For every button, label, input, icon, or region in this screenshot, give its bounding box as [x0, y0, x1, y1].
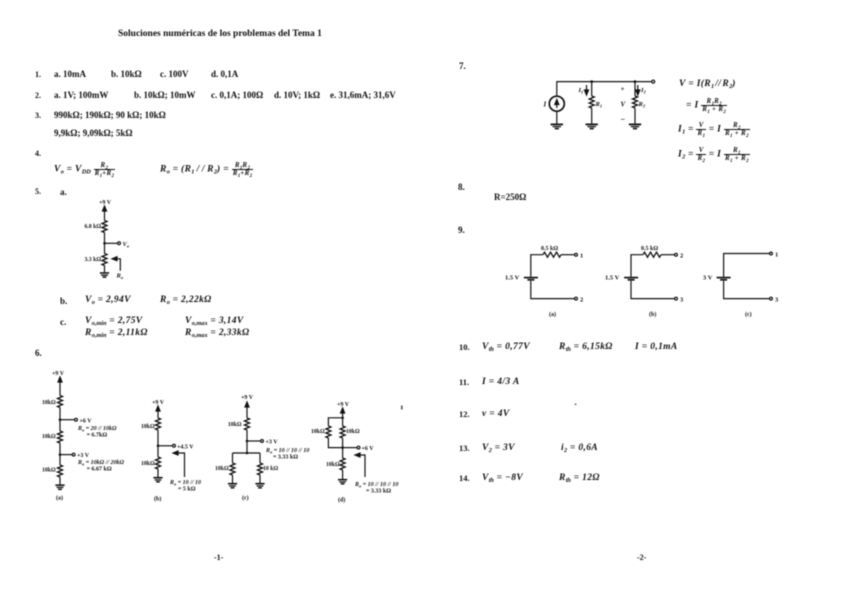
svg-text:Vo: Vo [123, 241, 130, 249]
svg-text:+9 V: +9 V [337, 402, 350, 408]
svg-text:10kΩ: 10kΩ [42, 468, 56, 474]
svg-text:1: 1 [775, 251, 778, 258]
svg-text:+3 V: +3 V [266, 440, 279, 446]
svg-text:3: 3 [775, 296, 779, 303]
svg-text:2: 2 [680, 253, 683, 260]
svg-text:1.5 V: 1.5 V [505, 275, 520, 282]
svg-text:3 V: 3 V [703, 275, 713, 282]
svg-text:(a): (a) [56, 495, 63, 502]
svg-text:10kΩ: 10kΩ [326, 462, 340, 468]
svg-text:R1: R1 [595, 101, 603, 109]
svg-text:+6 V: +6 V [362, 446, 375, 452]
svg-text:1: 1 [580, 253, 583, 260]
svg-text:V: V [621, 101, 627, 109]
svg-text:(c): (c) [242, 495, 249, 502]
svg-text:+9 V: +9 V [241, 395, 254, 401]
svg-text:1.5 V: 1.5 V [605, 275, 620, 282]
svg-text:−: − [621, 115, 626, 124]
svg-text:(c): (c) [745, 311, 752, 318]
svg-text:I2: I2 [640, 87, 647, 95]
svg-text:0.5 kΩ: 0.5 kΩ [641, 246, 658, 252]
svg-text:= 3.33 kΩ: = 3.33 kΩ [366, 489, 391, 495]
svg-text:I1: I1 [578, 87, 584, 95]
svg-text:10kΩ: 10kΩ [311, 429, 325, 435]
svg-text:= 6.67 kΩ: = 6.67 kΩ [87, 467, 112, 473]
svg-text:+: + [621, 85, 625, 93]
svg-text:R2: R2 [638, 101, 646, 109]
svg-text:+6 V: +6 V [80, 418, 93, 424]
svg-text:10kΩ: 10kΩ [228, 422, 242, 428]
svg-text:+9 V: +9 V [52, 371, 65, 377]
svg-text:6.8 kΩ: 6.8 kΩ [84, 224, 101, 230]
svg-text:3: 3 [680, 296, 684, 303]
svg-text:10kΩ: 10kΩ [215, 466, 229, 472]
svg-text:+9 V: +9 V [99, 200, 112, 206]
svg-text:0.5 kΩ: 0.5 kΩ [541, 246, 558, 252]
svg-text:10kΩ: 10kΩ [42, 400, 56, 406]
svg-text:+9 V: +9 V [152, 400, 165, 406]
svg-text:(b): (b) [649, 311, 656, 318]
svg-text:Ro: Ro [116, 273, 124, 281]
svg-text:3.3 kΩ: 3.3 kΩ [84, 257, 101, 263]
svg-text:2: 2 [580, 296, 583, 303]
svg-text:10kΩ: 10kΩ [141, 461, 155, 467]
svg-text:10kΩ: 10kΩ [42, 434, 56, 440]
svg-text:10kΩ: 10kΩ [346, 429, 360, 435]
svg-text:I: I [543, 101, 547, 109]
svg-text:(d): (d) [338, 497, 345, 504]
svg-text:10 kΩ: 10 kΩ [263, 466, 278, 472]
svg-text:= 6.7kΩ: = 6.7kΩ [87, 433, 108, 439]
svg-text:= 3.33 kΩ: = 3.33 kΩ [273, 455, 298, 461]
svg-text:+3 V: +3 V [77, 453, 90, 459]
svg-text:= 5 kΩ: = 5 kΩ [178, 487, 196, 493]
svg-text:+4.5 V: +4.5 V [177, 444, 194, 450]
svg-text:10kΩ: 10kΩ [141, 424, 155, 430]
svg-text:(a): (a) [549, 311, 556, 318]
svg-text:(b): (b) [154, 496, 161, 503]
